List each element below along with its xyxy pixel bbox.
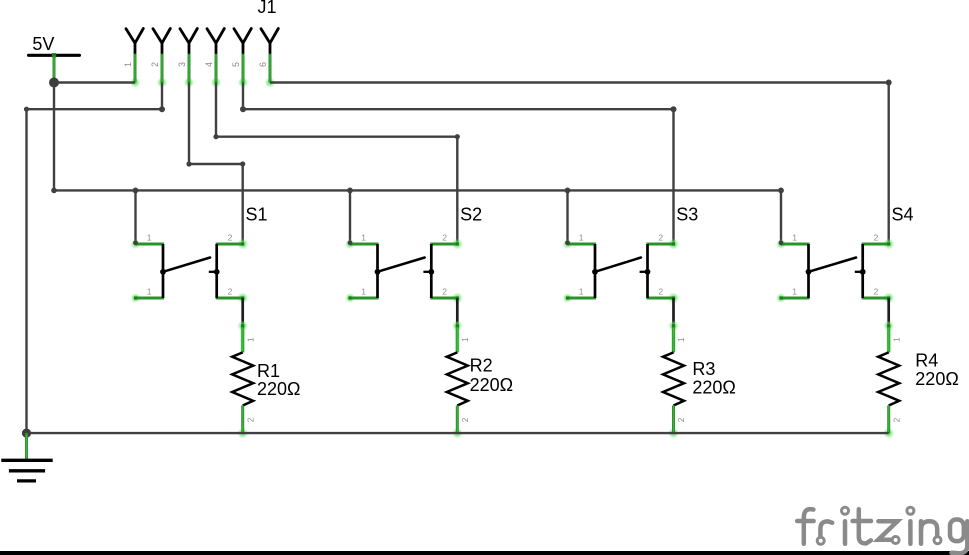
resistor R2 pin 2 number — [461, 417, 470, 422]
switch S1 right post — [215, 244, 218, 298]
svg-text:S3: S3 — [676, 205, 698, 225]
svg-text:220Ω: 220Ω — [470, 375, 513, 395]
connector J1 pin 4 — [207, 29, 224, 88]
resistor R1 zigzag body — [232, 352, 253, 405]
wire drop to S3 pin2 — [672, 109, 674, 244]
resistor R2 bottom lead — [452, 406, 463, 439]
resistor R4 top lead — [884, 321, 894, 353]
junction dot ground node — [22, 429, 31, 438]
resistor R4 value label — [915, 369, 959, 389]
switch S1 pin2 bottom lead — [216, 292, 249, 303]
fritzing watermark logo — [797, 507, 967, 553]
wire pin5 to S3 column — [243, 108, 674, 110]
switch S3 right contact dot and tick — [640, 269, 651, 275]
svg-text:2: 2 — [442, 286, 447, 296]
switch S2 right post — [430, 244, 433, 298]
connector J1 pin 5 — [234, 29, 251, 88]
bend dot pin3 corner — [186, 161, 191, 166]
power symbol 5V label — [32, 34, 54, 54]
wire pin4 to S2 column — [216, 135, 457, 137]
svg-text:1: 1 — [246, 337, 255, 342]
switch S2 left post — [376, 244, 379, 298]
svg-text:2: 2 — [228, 232, 233, 242]
resistor R1 top lead — [238, 321, 248, 353]
switch S3 pin2 bottom lead — [647, 292, 680, 303]
wire J1 pin2 drop — [161, 83, 163, 110]
switch S2 pin 1 bottom number — [361, 286, 366, 296]
switch S1 pin 1 top number — [147, 232, 152, 242]
switch S3 left post — [594, 244, 597, 298]
bend dot pin4 corner — [213, 134, 218, 139]
switch S3 right post — [646, 244, 649, 298]
resistor R3 pin 1 number — [677, 337, 686, 342]
switch S4 label — [892, 205, 914, 225]
svg-text:2: 2 — [874, 286, 879, 296]
svg-text:220Ω: 220Ω — [692, 378, 736, 398]
svg-text:J1: J1 — [258, 0, 277, 17]
junction dot 5V node — [49, 78, 59, 88]
svg-text:S1: S1 — [246, 205, 268, 225]
junction dot rail to S1 pin1 — [133, 188, 139, 194]
bend dot pin2 corner — [159, 106, 165, 112]
svg-text:2: 2 — [658, 232, 663, 242]
ground symbol pin — [25, 433, 28, 460]
switch S4 actuator diagonal — [809, 258, 857, 272]
switch S2 label — [460, 205, 482, 225]
resistor R3 bottom lead — [668, 406, 679, 439]
wire drop to S4 pin1 — [780, 190, 782, 244]
svg-text:2: 2 — [874, 232, 879, 242]
junction dot rail to S4 pin1 — [778, 188, 784, 194]
resistor R1 value label — [257, 379, 301, 399]
wire pin2 to left edge — [27, 108, 163, 110]
resistor R1 label — [257, 361, 280, 381]
bend dot S2 column corner — [455, 134, 460, 139]
connector J1 pin 6 — [261, 29, 278, 88]
svg-text:R2: R2 — [470, 356, 493, 376]
svg-text:2: 2 — [150, 62, 160, 67]
svg-text:1: 1 — [677, 337, 686, 342]
connector J1 pin 2 — [153, 29, 170, 88]
svg-text:2: 2 — [442, 232, 447, 242]
resistor R3 value label — [692, 378, 736, 398]
switch S3 actuator diagonal — [595, 258, 641, 272]
bend dot S3 column corner — [671, 106, 677, 112]
switch S4 left contact dot — [806, 269, 812, 275]
resistor R1 bottom lead — [237, 406, 248, 439]
wire switch rail 5V — [54, 189, 781, 191]
switch S4 right post — [861, 244, 864, 298]
switch S1 left contact dot — [160, 269, 166, 275]
resistor R3 pin 2 number — [677, 417, 686, 422]
switch S1 label — [246, 205, 268, 225]
switch S1 right contact dot and tick — [209, 269, 220, 275]
svg-text:R3: R3 — [692, 359, 715, 379]
bottom border bar — [0, 551, 969, 555]
resistor R1 pin 2 number — [246, 417, 255, 422]
ground symbol bar 3 — [17, 479, 36, 482]
svg-text:1: 1 — [147, 232, 152, 242]
svg-text:R4: R4 — [915, 350, 938, 370]
resistor R3 label — [692, 359, 715, 379]
bend dot pin6 rail corner — [886, 80, 892, 86]
wire pin3 to S1 column — [189, 163, 243, 165]
svg-text:220Ω: 220Ω — [915, 369, 959, 389]
bend dot 5V rail corner — [51, 188, 57, 194]
switch S4 pin2 bottom lead — [862, 292, 895, 303]
wire J1 pin6 rail to S4 — [270, 81, 889, 83]
svg-text:S2: S2 — [460, 205, 482, 225]
resistor R4 bottom lead — [883, 406, 894, 439]
svg-text:1: 1 — [579, 232, 584, 242]
svg-text:5: 5 — [231, 62, 241, 67]
wire J1 pin3 drop — [188, 83, 190, 165]
switch S1 pin2 top lead — [216, 238, 249, 249]
switch S2 pin 2 bottom number — [442, 286, 447, 296]
svg-text:R1: R1 — [257, 361, 280, 381]
resistor R4 zigzag body — [878, 352, 899, 405]
resistor R2 pin 1 number — [461, 337, 470, 342]
svg-text:2: 2 — [658, 286, 663, 296]
switch S3 left contact dot — [592, 269, 598, 275]
switch S1 pin1 bottom lead — [131, 293, 165, 303]
bend dot pin5 corner — [240, 106, 246, 112]
switch S2 pin1 top lead — [345, 239, 379, 249]
ground symbol bar 1 — [1, 459, 52, 462]
wire drop to S2 pin2 — [456, 137, 458, 244]
resistor R4 pin 2 number — [892, 417, 901, 422]
ground symbol bar 2 — [9, 469, 45, 472]
switch S3 label — [676, 205, 698, 225]
svg-text:1: 1 — [461, 337, 470, 342]
connector J1 pin 3 — [180, 29, 197, 88]
wire J1 pin4 drop — [215, 83, 217, 137]
switch S2 pin 2 top number — [442, 232, 447, 242]
junction dot rail to S3 pin1 — [565, 188, 571, 194]
connector J1 label — [258, 0, 277, 17]
switch S2 left contact dot — [375, 269, 381, 275]
resistor R2 top lead — [452, 321, 462, 353]
wire drop to S1 pin1 — [134, 190, 136, 244]
switch S2 pin2 bottom lead — [430, 292, 463, 303]
svg-text:1: 1 — [792, 232, 797, 242]
switch S1 actuator diagonal — [163, 258, 210, 272]
wire S4 pin2 to resistor — [887, 298, 890, 326]
svg-text:2: 2 — [228, 286, 233, 296]
J1 pin 6 number label — [258, 62, 268, 67]
svg-text:6: 6 — [258, 62, 268, 67]
switch S4 pin 2 bottom number — [874, 286, 879, 296]
switch S1 pin1 top lead — [131, 239, 165, 249]
wire S3 pin2 to resistor — [672, 298, 675, 326]
switch S2 pin1 bottom lead — [345, 293, 379, 303]
switch S4 left post — [807, 244, 810, 298]
wire S1 pin2 to resistor — [241, 298, 244, 326]
switch S3 pin2 top lead — [647, 238, 680, 249]
svg-text:1: 1 — [361, 232, 366, 242]
switch S4 right contact dot and tick — [855, 269, 866, 275]
resistor R4 pin 1 number — [892, 337, 901, 342]
svg-text:2: 2 — [892, 417, 901, 422]
switch S1 left post — [162, 244, 165, 298]
svg-text:1: 1 — [147, 286, 152, 296]
svg-text:1: 1 — [123, 62, 133, 67]
switch S3 pin1 bottom lead — [563, 293, 597, 303]
wire drop to S1 pin2 — [241, 164, 243, 244]
wire 5V to J1 pin1 — [54, 81, 135, 83]
J1 pin 3 number label — [177, 62, 187, 67]
resistor R3 zigzag body — [663, 352, 684, 405]
svg-text:2: 2 — [246, 417, 255, 422]
switch S1 pin 2 bottom number — [228, 286, 233, 296]
svg-text:S4: S4 — [892, 205, 914, 225]
J1 pin 2 number label — [150, 62, 160, 67]
switch S3 pin1 top lead — [563, 239, 597, 249]
switch S3 pin 2 top number — [658, 232, 663, 242]
svg-text:1: 1 — [579, 286, 584, 296]
switch S4 pin1 top lead — [776, 239, 810, 249]
switch S2 pin 1 top number — [361, 232, 366, 242]
svg-text:220Ω: 220Ω — [257, 379, 301, 399]
switch S4 pin1 bottom lead — [776, 293, 810, 303]
resistor R2 zigzag body — [447, 352, 468, 405]
switch S4 pin 2 top number — [874, 232, 879, 242]
resistor R3 top lead — [668, 321, 678, 353]
wire left edge down to ground bus — [25, 109, 27, 433]
J1 pin 1 number label — [123, 62, 133, 67]
junction dot rail to S2 pin1 — [347, 188, 353, 194]
svg-text:1: 1 — [792, 286, 797, 296]
power symbol 5V pin — [53, 57, 56, 82]
power symbol 5V bar — [29, 53, 80, 57]
resistor R2 value label — [470, 375, 513, 395]
switch S2 actuator diagonal — [378, 258, 425, 272]
svg-text:1: 1 — [892, 337, 901, 342]
wire J1 pin5 drop — [242, 83, 244, 110]
resistor R2 label — [470, 356, 493, 376]
wire ground bus — [27, 432, 889, 434]
switch S4 pin2 top lead — [862, 238, 895, 249]
svg-text:4: 4 — [204, 62, 214, 67]
wire drop to S2 pin1 — [349, 190, 351, 244]
switch S3 pin 1 bottom number — [579, 286, 584, 296]
switch S1 pin 1 bottom number — [147, 286, 152, 296]
switch S2 pin2 top lead — [430, 238, 463, 249]
svg-text:3: 3 — [177, 62, 187, 67]
svg-text:1: 1 — [361, 286, 366, 296]
wire S2 pin2 to resistor — [456, 298, 459, 326]
switch S3 pin 2 bottom number — [658, 286, 663, 296]
switch S3 pin 1 top number — [579, 232, 584, 242]
J1 pin 4 number label — [204, 62, 214, 67]
J1 pin 5 number label — [231, 62, 241, 67]
svg-text:2: 2 — [461, 417, 470, 422]
bend dot left edge corner — [24, 107, 29, 112]
svg-text:2: 2 — [677, 417, 686, 422]
resistor R1 pin 1 number — [246, 337, 255, 342]
connector J1 pin 1 — [126, 29, 143, 88]
switch S4 pin 1 top number — [792, 232, 797, 242]
wire drop to S3 pin1 — [566, 190, 568, 244]
wire 5V down to switch rail — [53, 83, 55, 191]
switch S4 pin 1 bottom number — [792, 286, 797, 296]
svg-text:5V: 5V — [32, 34, 54, 54]
bend dot S1 column corner — [240, 161, 245, 166]
wire drop to S4 pin2 — [888, 83, 890, 245]
switch S2 right contact dot and tick — [423, 269, 434, 275]
resistor R4 label — [915, 350, 938, 370]
switch S1 pin 2 top number — [228, 232, 233, 242]
